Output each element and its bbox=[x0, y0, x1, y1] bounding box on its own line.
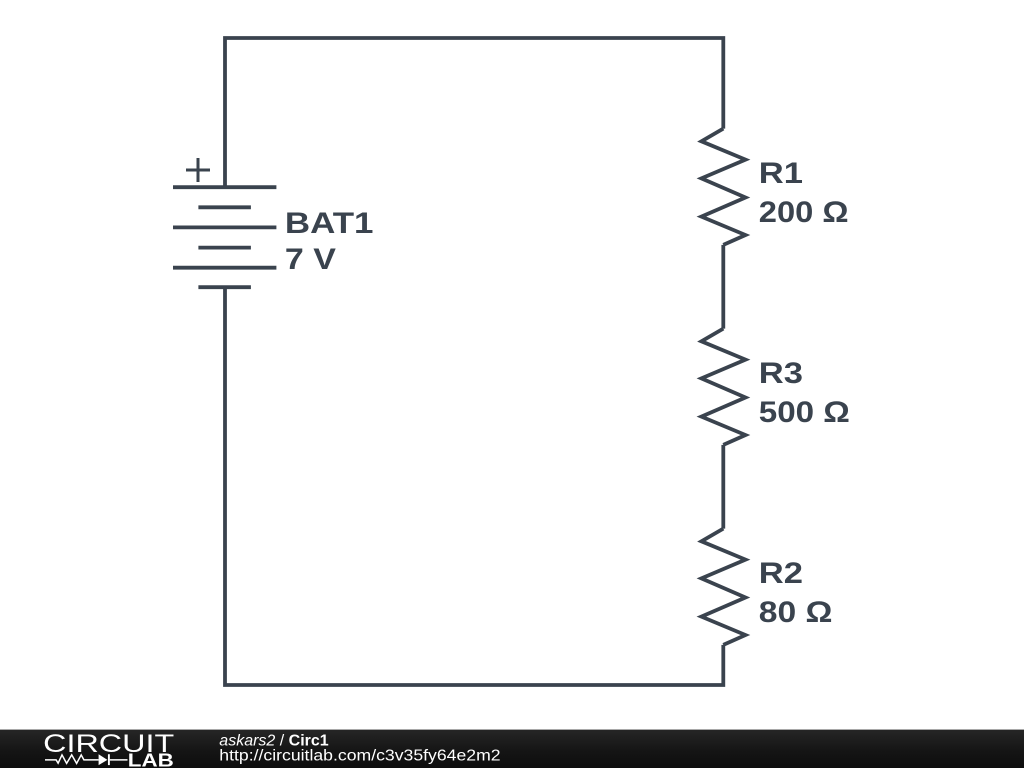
svg-text:LAB: LAB bbox=[128, 750, 174, 768]
svg-text:R3: R3 bbox=[759, 357, 803, 390]
svg-text:200 Ω: 200 Ω bbox=[759, 196, 849, 229]
svg-text:R1: R1 bbox=[759, 157, 803, 190]
svg-text:http://circuitlab.com/c3v35fy6: http://circuitlab.com/c3v35fy64e2m2 bbox=[219, 747, 500, 764]
svg-text:80 Ω: 80 Ω bbox=[759, 596, 833, 629]
svg-text:BAT1: BAT1 bbox=[285, 207, 374, 240]
svg-text:R2: R2 bbox=[759, 557, 803, 590]
svg-text:7 V: 7 V bbox=[285, 243, 336, 276]
svg-text:500 Ω: 500 Ω bbox=[759, 396, 850, 429]
